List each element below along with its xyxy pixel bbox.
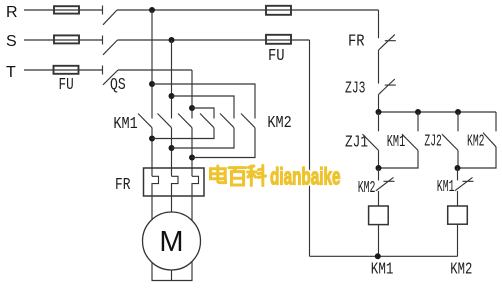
node junction left pair [376, 165, 382, 171]
fuse FU S-phase [54, 35, 79, 43]
svg-text:T: T [6, 64, 16, 81]
fuse FU R-phase [54, 6, 79, 13]
node junction bottom bus [375, 253, 381, 259]
node junction S drop [169, 37, 175, 43]
wire KM1 branch join [379, 150, 419, 168]
wire motor lead bottom 1 [151, 263, 153, 281]
node junction pole3 join [189, 155, 195, 161]
wire cross T to KM2 pole1 [192, 108, 214, 119]
node bus junction 2 [415, 109, 421, 115]
contact ZJ2 NO blade [442, 134, 458, 150]
fuse FU2 R-phase [266, 6, 291, 15]
svg-text:KM1: KM1 [113, 115, 137, 134]
node junction R drop [149, 7, 155, 13]
wire FR to ZJ3 [378, 50, 380, 84]
wire T after switch [118, 69, 192, 71]
contactor KM1 pole 2 blade [158, 114, 172, 128]
svg-text:KM2: KM2 [358, 179, 376, 198]
contact FR NC blade [379, 35, 396, 50]
wire branch stub KM1 aux [417, 112, 419, 131]
wire S after switch [118, 39, 310, 41]
wire KM2 branch join [458, 147, 497, 168]
contactor KM1 pole 1 blade [138, 114, 152, 128]
wire T feed with terminal tick [24, 66, 103, 75]
wire motor bottom link [152, 280, 193, 282]
svg-text:dianbaike: dianbaike [270, 164, 341, 191]
wire coil KM1 to bottom bus [378, 225, 380, 256]
node junction S cross [169, 93, 175, 99]
wire KM1 pole1 output [151, 128, 153, 177]
svg-text:KM2: KM2 [267, 114, 291, 133]
svg-text:KM1: KM1 [387, 133, 405, 152]
wire join pole1 KM2 [152, 128, 214, 139]
svg-text:KM1: KM1 [437, 178, 455, 197]
svg-text:FR: FR [348, 33, 365, 52]
wire join pole2 KM2 [172, 128, 235, 148]
watermark 电百科 dianbaike [211, 166, 266, 186]
wire left control rail [309, 40, 311, 256]
contact ZJ3 NC blade [379, 79, 396, 94]
wire branch stub ZJ2 [457, 112, 459, 131]
wire R feed with terminal tick [24, 6, 103, 15]
fuse FU2 S-phase [266, 35, 291, 44]
wire control drop from R [378, 10, 380, 38]
wire join pole3 KM2 [192, 128, 255, 158]
wire into KM1 interlock [457, 168, 459, 180]
contactor KM2 pole 2 blade [220, 114, 234, 128]
wire KM1 pole3 output [191, 128, 193, 177]
switch QS blade S [103, 40, 118, 55]
heater element 2 [172, 176, 179, 212]
thermal overload relay FR box [144, 168, 205, 196]
contact KM1 NO blade [402, 134, 418, 150]
svg-text:QS: QS [110, 76, 126, 95]
wire bottom control bus [310, 255, 458, 257]
wire ZJ1 branch down [378, 150, 380, 168]
wire branch stub ZJ1 [378, 112, 380, 131]
node junction R cross [149, 81, 155, 87]
wire ZJ2 branch down [457, 150, 459, 168]
motor M circle [143, 212, 201, 270]
svg-text:S: S [6, 33, 17, 50]
svg-text:M: M [159, 226, 183, 258]
wire ZJ3 to bus [378, 94, 380, 112]
fuse FU T-phase [54, 66, 79, 74]
contactor KM2 pole 1 blade [200, 114, 214, 128]
wire branch stub KM2 aux [495, 112, 497, 131]
wire KM1 pole2 output [171, 128, 173, 177]
svg-text:FU: FU [268, 47, 285, 66]
heater element 3 [192, 176, 199, 221]
node junction pole1 join [149, 136, 155, 142]
wire to coil KM2 [457, 191, 459, 206]
contact KM2 NO blade [483, 133, 496, 147]
svg-text:KM2: KM2 [450, 260, 472, 279]
wire to coil KM1 [378, 191, 380, 206]
svg-text:R: R [6, 4, 18, 21]
node junction T cross [189, 105, 195, 111]
node junction pole2 join [169, 145, 175, 151]
wire S feed with terminal tick [24, 36, 103, 45]
contact KM2 NC interlock blade [376, 177, 395, 190]
wire motor lead bottom 3 [191, 262, 193, 281]
wire motor lead bottom 2 [171, 270, 173, 281]
svg-text:ZJ2: ZJ2 [424, 133, 442, 152]
wire vertical drop phase S [171, 40, 173, 119]
contact KM1 NC interlock blade [455, 177, 474, 190]
svg-text:KM2: KM2 [467, 133, 485, 152]
node bus junction 1 [376, 109, 382, 115]
wire control top bus [379, 111, 497, 113]
node bus junction 3 [455, 109, 461, 115]
contactor KM1 pole 3 blade [178, 114, 192, 128]
svg-text:ZJ3: ZJ3 [345, 80, 366, 99]
switch QS blade T [103, 70, 118, 85]
contact ZJ1 NO blade [363, 134, 379, 150]
node junction right pair [455, 165, 461, 171]
svg-text:KM1: KM1 [371, 260, 394, 279]
wire R after switch [117, 9, 379, 11]
wire into KM2 interlock [378, 168, 380, 180]
coil KM1 [369, 206, 389, 225]
wire vertical drop phase R [151, 10, 153, 119]
wire vertical drop phase T [191, 70, 193, 119]
wire cross S to KM2 pole2 [172, 96, 235, 119]
svg-text:FR: FR [115, 176, 131, 195]
heater element 1 [152, 176, 159, 220]
contactor KM2 pole 3 blade [241, 114, 255, 128]
wire coil KM2 to bottom bus [457, 224, 459, 256]
svg-text:FU: FU [59, 76, 74, 95]
switch QS blade R [103, 10, 117, 25]
coil KM2 [448, 206, 468, 224]
wire cross R to KM2 pole3 [152, 84, 255, 119]
